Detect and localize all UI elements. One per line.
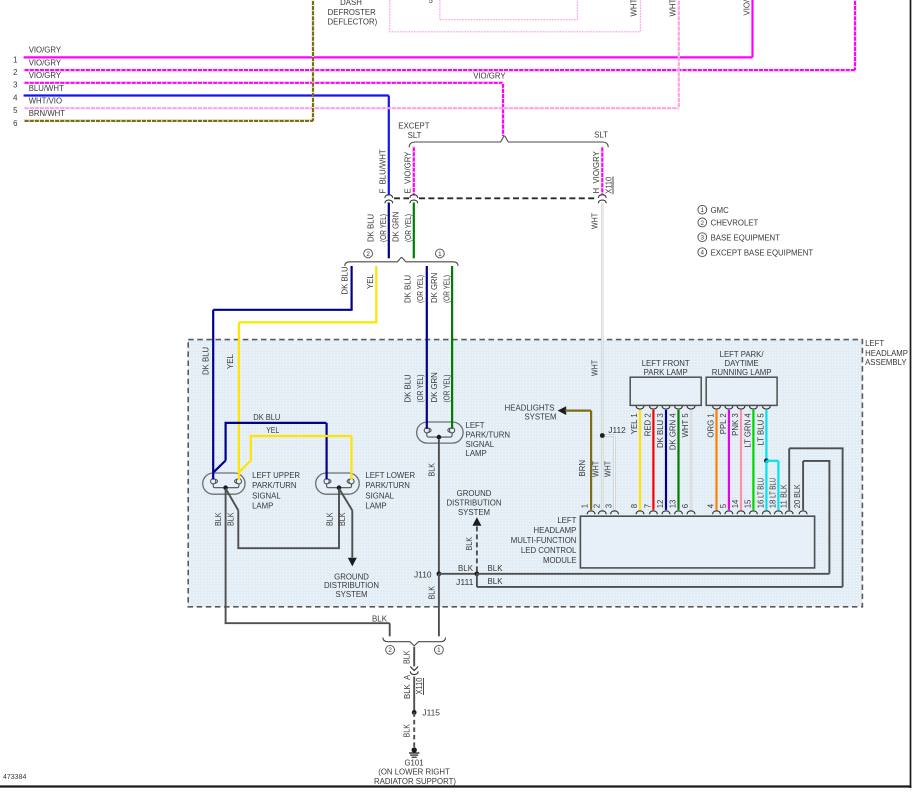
svg-text:DK GRN: DK GRN [430, 372, 439, 402]
svg-text:DEFROSTER: DEFROSTER [328, 8, 376, 17]
svg-text:RADIATOR SUPPORT): RADIATOR SUPPORT) [374, 777, 456, 786]
svg-text:(OR YEL): (OR YEL) [379, 214, 388, 242]
svg-text:WHT: WHT [591, 213, 600, 229]
svg-text:BLK: BLK [427, 462, 436, 476]
svg-text:SLT: SLT [408, 131, 422, 140]
svg-text:(OR YEL): (OR YEL) [404, 214, 413, 242]
svg-text:473384: 473384 [3, 774, 26, 781]
svg-text:BRN/WHT: BRN/WHT [29, 109, 66, 118]
svg-text:LEFT FRONT: LEFT FRONT [642, 359, 690, 368]
svg-text:BLK: BLK [427, 585, 436, 599]
svg-text:VIO/GRY: VIO/GRY [473, 71, 506, 80]
svg-text:2: 2 [366, 251, 370, 258]
svg-text:3: 3 [701, 235, 705, 242]
svg-text:EXCEPT BASE EQUIPMENT: EXCEPT BASE EQUIPMENT [711, 248, 814, 257]
svg-text:LT BLU: LT BLU [757, 478, 766, 498]
svg-text:EXCEPT: EXCEPT [398, 122, 429, 131]
svg-text:BLK: BLK [326, 512, 335, 526]
svg-text:BLK: BLK [779, 484, 788, 498]
svg-text:(OR YEL): (OR YEL) [416, 275, 425, 303]
svg-text:PARK LAMP: PARK LAMP [644, 368, 688, 377]
svg-text:(ON LOWER RIGHT: (ON LOWER RIGHT [378, 768, 450, 777]
svg-text:VIO/GRY: VIO/GRY [29, 71, 62, 80]
svg-text:YEL: YEL [366, 274, 375, 289]
svg-text:SIGNAL: SIGNAL [365, 491, 394, 500]
svg-text:5: 5 [719, 503, 728, 508]
svg-text:BLK: BLK [458, 564, 474, 573]
svg-text:BLK: BLK [402, 723, 411, 737]
svg-text:DK BLU 3: DK BLU 3 [656, 413, 665, 448]
svg-text:LAMP: LAMP [466, 449, 487, 458]
svg-text:DK BLU: DK BLU [201, 346, 210, 375]
svg-text:1: 1 [701, 207, 705, 214]
svg-text:PPL 2: PPL 2 [719, 413, 728, 434]
svg-text:MULTI-FUNCTION: MULTI-FUNCTION [511, 536, 577, 545]
svg-text:F BLU/WHT: F BLU/WHT [379, 149, 388, 193]
svg-text:7: 7 [644, 504, 653, 508]
svg-text:BRN: BRN [578, 460, 587, 476]
svg-text:6: 6 [681, 504, 690, 508]
svg-text:YEL: YEL [226, 354, 235, 369]
svg-text:LEFT LOWER: LEFT LOWER [365, 471, 415, 480]
svg-text:VIO/GRY: VIO/GRY [29, 46, 62, 55]
svg-text:BLU/WHT: BLU/WHT [29, 84, 64, 93]
svg-text:LEFT UPPER: LEFT UPPER [252, 471, 300, 480]
svg-text:HEADLAMP: HEADLAMP [533, 526, 576, 535]
svg-text:11: 11 [779, 500, 788, 508]
svg-text:BASE EQUIPMENT: BASE EQUIPMENT [711, 233, 781, 242]
svg-text:5: 5 [13, 106, 18, 115]
svg-text:X110: X110 [605, 176, 614, 194]
svg-text:BLK: BLK [402, 650, 411, 664]
svg-text:YEL: YEL [266, 426, 280, 435]
svg-text:PNK 3: PNK 3 [731, 413, 740, 436]
svg-text:WHT/VIO: WHT/VIO [29, 97, 62, 106]
svg-text:LEFT: LEFT [466, 421, 485, 430]
svg-text:4: 4 [707, 503, 716, 508]
svg-text:(OR YEL): (OR YEL) [443, 275, 452, 303]
svg-text:LT BLU: LT BLU [769, 478, 778, 498]
svg-text:DK GRN: DK GRN [430, 273, 439, 303]
svg-text:DK BLU: DK BLU [341, 266, 350, 295]
svg-text:J115: J115 [422, 709, 440, 718]
svg-text:2: 2 [701, 220, 705, 227]
svg-text:YEL 1: YEL 1 [630, 413, 639, 434]
svg-text:E VIO/GRY: E VIO/GRY [404, 151, 413, 194]
svg-text:HEADLIGHTS: HEADLIGHTS [505, 404, 555, 413]
svg-text:SLT: SLT [594, 131, 608, 140]
svg-text:CHEVROLET: CHEVROLET [711, 219, 759, 228]
svg-text:ORG 1: ORG 1 [707, 413, 716, 437]
svg-text:RED 2: RED 2 [644, 413, 653, 436]
svg-text:VIO/GRY: VIO/GRY [29, 58, 62, 67]
svg-text:1: 1 [581, 504, 590, 508]
svg-text:DK BLU: DK BLU [403, 274, 412, 303]
svg-text:DK BLU: DK BLU [403, 374, 412, 403]
svg-text:BLK: BLK [214, 512, 223, 526]
svg-text:(OR YEL): (OR YEL) [416, 374, 425, 402]
svg-text:15: 15 [744, 499, 753, 508]
svg-text:BLK: BLK [372, 614, 388, 623]
svg-text:1: 1 [437, 647, 441, 654]
svg-text:2: 2 [13, 68, 17, 77]
svg-text:LT BLU 5: LT BLU 5 [757, 413, 766, 446]
svg-text:LEFT: LEFT [865, 339, 884, 348]
svg-text:BLK A: BLK A [403, 674, 412, 699]
svg-text:H VIO/GRY: H VIO/GRY [592, 150, 601, 193]
svg-text:DK GRN: DK GRN [391, 212, 400, 242]
svg-text:8: 8 [630, 504, 639, 508]
svg-text:VIO/GRY: VIO/GRY [742, 0, 751, 16]
svg-text:SIGNAL: SIGNAL [252, 491, 281, 500]
svg-text:X110: X110 [415, 677, 424, 695]
svg-text:PARK/TURN: PARK/TURN [365, 481, 409, 490]
svg-text:DISTRIBUTION: DISTRIBUTION [324, 581, 379, 590]
svg-text:13: 13 [669, 500, 678, 509]
svg-text:LAMP: LAMP [252, 502, 273, 511]
svg-text:G101: G101 [404, 759, 423, 768]
svg-text:3: 3 [13, 81, 17, 90]
svg-text:1: 1 [13, 55, 17, 64]
svg-text:MODULE: MODULE [543, 556, 576, 565]
svg-text:ASSEMBLY: ASSEMBLY [865, 358, 907, 367]
svg-text:WHT: WHT [604, 461, 613, 477]
svg-text:J112: J112 [608, 426, 626, 435]
svg-text:DK GRN 4: DK GRN 4 [669, 413, 678, 450]
svg-text:20: 20 [793, 499, 802, 508]
svg-text:(OR YEL): (OR YEL) [443, 374, 452, 402]
svg-text:6: 6 [13, 119, 17, 128]
svg-text:SYSTEM: SYSTEM [458, 508, 490, 517]
svg-text:2: 2 [592, 504, 601, 508]
svg-text:WHT: WHT [629, 0, 638, 17]
svg-text:SYSTEM: SYSTEM [524, 413, 556, 422]
svg-text:DK BLU: DK BLU [253, 413, 280, 422]
svg-text:4: 4 [13, 93, 18, 102]
svg-text:HEADLAMP: HEADLAMP [865, 349, 908, 358]
svg-text:5: 5 [429, 0, 434, 5]
svg-text:4: 4 [701, 250, 705, 257]
svg-text:WHT: WHT [668, 0, 677, 17]
svg-text:SIGNAL: SIGNAL [466, 440, 495, 449]
svg-text:PARK/TURN: PARK/TURN [252, 481, 296, 490]
svg-text:12: 12 [656, 500, 665, 509]
svg-text:BLK: BLK [338, 512, 347, 526]
svg-text:1: 1 [438, 251, 442, 258]
svg-text:DAYTIME: DAYTIME [725, 359, 759, 368]
svg-text:DEFLECTOR): DEFLECTOR) [328, 18, 378, 27]
svg-text:GROUND: GROUND [457, 489, 492, 498]
svg-text:J110: J110 [414, 570, 432, 579]
svg-text:16: 16 [757, 500, 766, 509]
svg-text:BLK: BLK [465, 536, 474, 550]
svg-text:DISTRIBUTION: DISTRIBUTION [446, 498, 501, 507]
svg-text:LED CONTROL: LED CONTROL [521, 546, 577, 555]
svg-text:J111: J111 [456, 578, 474, 587]
svg-text:BLK: BLK [488, 564, 504, 573]
svg-text:LAMP: LAMP [365, 502, 386, 511]
svg-text:LT GRN 4: LT GRN 4 [744, 413, 753, 448]
svg-text:DASH: DASH [340, 0, 362, 7]
svg-text:2: 2 [388, 647, 392, 654]
svg-text:LEFT PARK/: LEFT PARK/ [720, 350, 765, 359]
svg-text:BLK: BLK [488, 577, 504, 586]
svg-text:BLK: BLK [793, 484, 802, 498]
svg-text:PARK/TURN: PARK/TURN [466, 430, 510, 439]
svg-text:BLK: BLK [227, 512, 236, 526]
svg-text:GROUND: GROUND [334, 572, 369, 581]
svg-text:WHT: WHT [591, 360, 600, 376]
svg-text:14: 14 [731, 499, 740, 508]
svg-text:18: 18 [769, 500, 778, 509]
svg-text:WHT: WHT [592, 461, 601, 477]
svg-text:DK BLU: DK BLU [366, 213, 375, 242]
svg-text:WHT 5: WHT 5 [681, 413, 690, 438]
svg-text:GMC: GMC [711, 206, 730, 215]
svg-text:3: 3 [605, 504, 614, 508]
svg-text:SYSTEM: SYSTEM [335, 590, 367, 599]
svg-text:LEFT: LEFT [557, 516, 576, 525]
svg-text:RUNNING LAMP: RUNNING LAMP [712, 368, 772, 377]
